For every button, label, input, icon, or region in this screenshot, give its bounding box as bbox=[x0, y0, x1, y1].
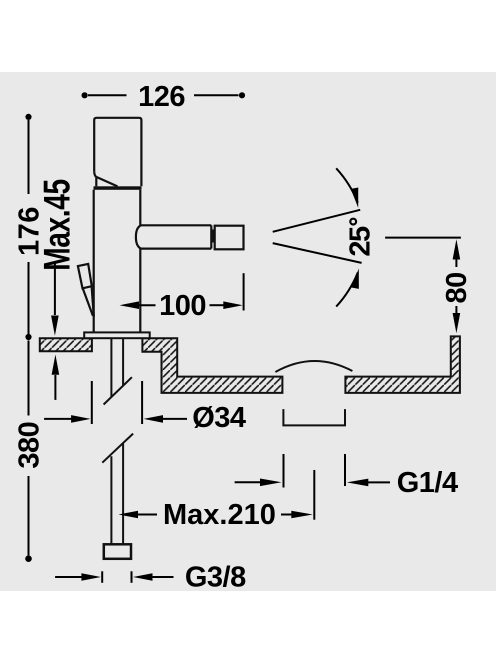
svg-text:380: 380 bbox=[13, 422, 45, 469]
svg-text:100: 100 bbox=[159, 290, 206, 322]
svg-text:G3/8: G3/8 bbox=[185, 562, 246, 594]
svg-text:Ø34: Ø34 bbox=[192, 402, 246, 434]
svg-text:25: 25 bbox=[345, 226, 377, 257]
svg-text:Max.210: Max.210 bbox=[163, 499, 276, 531]
svg-text:Max.45: Max.45 bbox=[37, 179, 78, 271]
svg-text:G1/4: G1/4 bbox=[397, 467, 458, 499]
svg-text:80: 80 bbox=[441, 272, 473, 303]
svg-text:126: 126 bbox=[138, 81, 185, 113]
